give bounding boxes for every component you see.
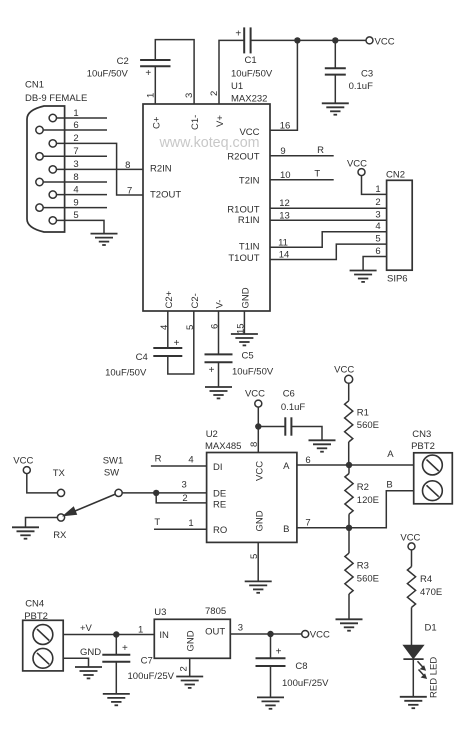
svg-text:+: + — [235, 29, 241, 40]
svg-text:SW: SW — [104, 468, 119, 479]
CN1 pin numbers 1-9 — [73, 108, 78, 221]
capacitor C5 — [205, 351, 274, 378]
capacitor C8 — [256, 646, 330, 689]
wire U1 pin12 to CN2 pin2 — [270, 207, 387, 209]
wire U1 pin1 riser — [154, 66, 156, 104]
svg-text:6: 6 — [375, 246, 380, 257]
svg-text:5: 5 — [73, 210, 78, 221]
svg-text:DE: DE — [213, 489, 226, 500]
svg-text:7: 7 — [127, 185, 132, 196]
svg-text:C5: C5 — [242, 351, 254, 362]
ground below C3 — [322, 103, 349, 114]
svg-text:VCC: VCC — [375, 36, 395, 47]
svg-text:DI: DI — [213, 462, 223, 473]
svg-text:1: 1 — [188, 518, 193, 529]
ground at U1 pin15 — [231, 334, 258, 345]
wire SW1 pole to U2 DE — [122, 492, 206, 494]
svg-text:T1IN: T1IN — [239, 241, 260, 252]
svg-text:C8: C8 — [295, 661, 307, 672]
CN2 pin numbers 1-6 — [375, 184, 380, 257]
wire VCC to R4 — [411, 550, 413, 567]
svg-text:A: A — [387, 449, 394, 460]
wire B row to CN3 — [349, 480, 414, 528]
U1 top pin numbers — [145, 91, 220, 98]
terminal VCC top — [366, 36, 395, 47]
switch SW1 pole — [103, 456, 124, 497]
svg-text:470E: 470E — [420, 587, 442, 598]
svg-text:560E: 560E — [357, 573, 379, 584]
node junction VCC-C6 — [255, 423, 261, 429]
capacitor C4 — [105, 338, 182, 379]
wire U1 pin10 T stub — [270, 169, 334, 180]
svg-text:MAX485: MAX485 — [205, 441, 241, 452]
svg-text:C1-: C1- — [190, 115, 201, 130]
CN4 screw terminal 2 — [33, 648, 53, 668]
svg-text:2: 2 — [179, 666, 190, 671]
switch SW1 blade with arrow — [64, 494, 116, 515]
U1 top pin labels — [151, 115, 226, 130]
U1 left pin labels — [150, 164, 181, 201]
wire CN1 pin8 stub — [43, 181, 107, 183]
svg-text:R: R — [155, 453, 162, 464]
svg-text:RE: RE — [213, 499, 226, 510]
wire U1 pin13 to CN2 pin3 — [270, 219, 387, 221]
connector CN4 PBT2 body — [23, 599, 64, 671]
svg-text:2: 2 — [73, 133, 78, 144]
svg-text:3: 3 — [73, 159, 78, 170]
svg-text:MAX232: MAX232 — [231, 94, 267, 105]
svg-text:C2-: C2- — [190, 293, 201, 308]
svg-text:4: 4 — [375, 221, 380, 232]
op-amp U1 MAX232 body — [143, 104, 270, 311]
svg-text:DB-9 FEMALE: DB-9 FEMALE — [25, 93, 87, 104]
svg-text:T1OUT: T1OUT — [228, 253, 259, 264]
wire junction to U2 RE — [156, 493, 206, 503]
node junction VCC-pin16 — [294, 37, 300, 43]
svg-text:8: 8 — [125, 160, 130, 171]
svg-text:C1: C1 — [245, 55, 257, 66]
svg-text:3: 3 — [181, 480, 186, 491]
wire U1 pin11 to CN2 pin4 — [270, 232, 387, 248]
wire T net to U2 RO — [154, 517, 207, 529]
svg-text:OUT: OUT — [205, 626, 225, 637]
svg-text:4: 4 — [73, 184, 78, 195]
capacitor C3 — [325, 68, 373, 92]
capacitor C6 — [281, 389, 305, 436]
terminal VCC output — [302, 630, 330, 641]
U1 right pin labels — [227, 127, 259, 264]
wire CN1 pin3 to R2IN — [57, 168, 144, 170]
svg-text:10uF/50V: 10uF/50V — [232, 367, 274, 378]
regulator U3 7805 body — [154, 606, 230, 658]
svg-text:+: + — [209, 365, 215, 376]
svg-text:+: + — [174, 338, 180, 349]
svg-text:VCC: VCC — [400, 532, 420, 543]
svg-text:C2: C2 — [117, 56, 129, 67]
svg-text:GND: GND — [254, 510, 265, 531]
ground at CN4 GND — [75, 667, 102, 678]
CN1 pin circles — [36, 114, 57, 224]
svg-text:IN: IN — [159, 630, 169, 641]
svg-text:PBT2: PBT2 — [24, 611, 48, 622]
wire junction to C8 — [270, 634, 272, 658]
ground at CN1 pin5 — [91, 234, 118, 245]
wire CN1 pin2 to T2OUT — [57, 143, 144, 195]
U1 designator label — [231, 81, 267, 105]
wire C6 to ground — [291, 427, 322, 441]
svg-text:R1: R1 — [357, 407, 369, 418]
wire C3 to ground — [334, 75, 336, 104]
svg-text:R2: R2 — [357, 482, 369, 493]
svg-text:7805: 7805 — [205, 606, 226, 617]
svg-text:VCC: VCC — [334, 364, 354, 375]
wire CN1 pin1 stub — [57, 117, 108, 119]
svg-text:GND: GND — [80, 647, 101, 658]
wire C7 to ground — [115, 662, 117, 694]
wire junction to C6 — [258, 426, 285, 428]
wire CN4 GND to ground — [63, 647, 101, 667]
svg-text:10uF/50V: 10uF/50V — [87, 68, 129, 79]
svg-text:T: T — [314, 169, 320, 180]
svg-text:U3: U3 — [154, 607, 166, 618]
svg-text:VCC: VCC — [13, 456, 33, 467]
svg-text:1: 1 — [375, 184, 380, 195]
U1 bottom pin labels — [164, 287, 252, 308]
ground at U3 GND — [176, 677, 203, 688]
svg-text:+: + — [276, 646, 282, 657]
wire VCC to U2 pin8 — [257, 407, 259, 452]
switch SW1 RX contact — [53, 514, 67, 541]
capacitor C2 — [87, 56, 171, 79]
svg-text:GND: GND — [240, 287, 251, 308]
wire VCC to CN2 pin1 — [362, 176, 387, 195]
wire C3 riser — [334, 40, 336, 68]
svg-text:VCC: VCC — [254, 461, 265, 481]
ground below D1 — [400, 697, 427, 708]
wire CN2 pin6 to ground — [363, 257, 387, 271]
svg-text:6: 6 — [73, 120, 78, 131]
svg-text:C7: C7 — [141, 656, 153, 667]
svg-text:100uF/25V: 100uF/25V — [282, 678, 329, 689]
svg-text:GND: GND — [186, 630, 197, 651]
svg-text:R2IN: R2IN — [150, 164, 172, 175]
svg-text:560E: 560E — [357, 420, 379, 431]
wire R1 to A row — [348, 442, 350, 465]
svg-text:U1: U1 — [231, 81, 243, 92]
wire U1 pin9 R stub — [270, 145, 334, 156]
svg-text:8: 8 — [73, 172, 78, 183]
svg-text:R4: R4 — [420, 574, 432, 585]
svg-text:T2OUT: T2OUT — [150, 189, 181, 200]
svg-text:CN3: CN3 — [412, 429, 431, 440]
wire CN4 +V to U3 IN — [63, 623, 154, 636]
svg-text:C6: C6 — [283, 389, 295, 400]
node junction DE-RE — [153, 490, 159, 496]
terminal VCC at CN2 — [347, 158, 367, 175]
svg-text:C4: C4 — [136, 352, 148, 363]
svg-text:R3: R3 — [357, 561, 369, 572]
diode D1 RED LED — [403, 645, 439, 698]
svg-text:D1: D1 — [425, 623, 437, 634]
svg-text:7: 7 — [73, 146, 78, 157]
svg-text:U2: U2 — [206, 429, 218, 440]
svg-text:V-: V- — [215, 300, 226, 309]
U1 bottom pin numbers — [159, 323, 247, 334]
svg-text:CN1: CN1 — [25, 80, 44, 91]
svg-text:4: 4 — [188, 454, 193, 465]
node junction B row — [346, 525, 352, 531]
wire U1 pin15 to ground — [243, 311, 245, 334]
ground below C7 — [103, 694, 130, 705]
svg-text:RED LED: RED LED — [429, 657, 440, 698]
svg-text:TX: TX — [53, 468, 66, 479]
node junction A row — [346, 462, 352, 468]
svg-text:5: 5 — [375, 234, 380, 245]
wire RX contact to ground — [26, 518, 58, 528]
ground below C8 — [257, 697, 284, 708]
wire R net to U2 DI — [151, 453, 207, 466]
ground below C5 — [205, 387, 232, 398]
capacitor C1 — [231, 27, 273, 79]
CN3 screw terminal 1 — [423, 455, 443, 475]
resistor R2 120E — [345, 465, 379, 528]
svg-text:120E: 120E — [357, 495, 379, 506]
wire U3 GND pin to ground — [179, 658, 190, 676]
svg-text:8: 8 — [249, 442, 260, 447]
svg-text:PBT2: PBT2 — [411, 441, 435, 452]
wire U2 pin5 to ground — [257, 542, 259, 581]
svg-text:SIP6: SIP6 — [387, 274, 408, 285]
svg-text:1: 1 — [73, 108, 78, 119]
terminal VCC at U2 pin8 — [245, 389, 265, 408]
wire U1 pin4 to C4 — [167, 311, 169, 348]
wire D1 to ground — [412, 659, 414, 697]
svg-text:VCC: VCC — [239, 127, 259, 138]
svg-text:VCC: VCC — [245, 389, 265, 400]
terminal VCC above R4 — [400, 532, 420, 550]
svg-text:CN4: CN4 — [25, 599, 44, 610]
svg-text:9: 9 — [73, 197, 78, 208]
U2 pin numbers — [181, 442, 310, 559]
wire CN1 pin7 stub — [43, 155, 107, 157]
wire CN1 pin6 stub — [43, 129, 107, 131]
wire VCC to TX contact — [27, 474, 58, 493]
ground below R3 — [336, 619, 363, 630]
svg-text:A: A — [283, 461, 290, 472]
svg-text:+: + — [122, 643, 128, 654]
svg-text:R2OUT: R2OUT — [227, 152, 259, 163]
terminal VCC above R1 — [334, 364, 354, 383]
wire VCC rail to U1 pin16 — [270, 40, 297, 130]
svg-text:RO: RO — [213, 525, 227, 536]
U2 pin labels — [213, 461, 290, 536]
svg-text:R1IN: R1IN — [238, 215, 260, 226]
svg-text:SW1: SW1 — [103, 456, 124, 467]
resistor R4 470E — [407, 567, 442, 608]
CN4 screw terminal 1 — [33, 625, 53, 645]
wire U1 pin14 to CN2 pin5 — [270, 244, 387, 259]
terminal VCC at SW1 — [13, 456, 33, 474]
svg-text:C+: C+ — [151, 116, 162, 129]
connector CN1 DB-9 FEMALE outline — [25, 80, 87, 233]
resistor R1 560E — [345, 401, 379, 442]
U1 side pin numbers — [125, 121, 290, 261]
svg-text:0.1uF: 0.1uF — [349, 81, 373, 92]
svg-text:RX: RX — [53, 530, 67, 541]
capacitor C7 — [102, 643, 174, 682]
svg-text:10uF/50V: 10uF/50V — [105, 368, 147, 379]
svg-text:B: B — [386, 480, 392, 491]
svg-text:100uF/25V: 100uF/25V — [128, 671, 175, 682]
wire U1 pin6 to C5 — [218, 311, 220, 354]
wire C2 top to U1 pin3 — [155, 40, 194, 104]
svg-text:CN2: CN2 — [386, 170, 405, 181]
svg-text:1: 1 — [138, 625, 143, 636]
svg-text:T2IN: T2IN — [239, 176, 260, 187]
wire CN1 pin9 stub — [43, 207, 107, 209]
svg-text:3: 3 — [375, 210, 380, 221]
svg-text:+V: +V — [80, 623, 93, 634]
svg-text:10uF/50V: 10uF/50V — [231, 68, 273, 79]
wire CN1 pin5 to ground — [57, 220, 105, 233]
svg-text:R1OUT: R1OUT — [227, 204, 259, 215]
wire C4 to U1 pin5 — [168, 311, 194, 374]
svg-text:C3: C3 — [361, 69, 373, 80]
wire CN1 pin4 stub — [57, 194, 108, 196]
wire VCC to R1 — [348, 383, 350, 401]
svg-text:VCC: VCC — [347, 158, 367, 169]
connector CN2 SIP6 body — [386, 170, 412, 285]
wire U2 B to junction — [297, 527, 349, 529]
node junction VCC C8 — [267, 631, 273, 637]
svg-text:T: T — [154, 517, 160, 528]
svg-text:VCC: VCC — [310, 630, 330, 641]
ground at U2 pin5 — [245, 581, 272, 592]
wire C5 to ground — [218, 362, 220, 387]
svg-text:0.1uF: 0.1uF — [281, 402, 305, 413]
switch SW1 TX contact — [53, 468, 66, 497]
svg-text:2: 2 — [375, 197, 380, 208]
wire C8 to ground — [270, 666, 272, 697]
connector CN3 PBT2 body — [411, 429, 452, 504]
ground at C6 — [309, 440, 336, 451]
svg-text:V+: V+ — [215, 115, 226, 127]
svg-text:+: + — [145, 68, 151, 79]
wire U2 A to CN3 — [297, 449, 414, 465]
op-amp U2 MAX485 body — [205, 429, 297, 542]
wire U3 OUT to VCC — [230, 622, 301, 634]
watermark www.koteq.com — [158, 135, 259, 151]
wire C1 to VCC rail — [251, 39, 366, 41]
resistor R3 560E — [345, 528, 379, 620]
CN3 screw terminal 2 — [423, 481, 443, 501]
svg-text:B: B — [283, 524, 289, 535]
wire U1 pin2 riser — [219, 40, 244, 104]
svg-text:7: 7 — [305, 517, 310, 528]
svg-text:R: R — [317, 145, 324, 156]
wire junction to C7 — [115, 635, 117, 655]
wire R4 to D1 — [412, 607, 437, 645]
svg-text:C2+: C2+ — [164, 290, 175, 308]
ground at SW1 RX — [12, 527, 39, 538]
ground at CN2 pin6 — [350, 271, 377, 282]
node junction VCC-C3 — [332, 37, 338, 43]
svg-text:3: 3 — [238, 622, 243, 633]
node junction +V C7 — [113, 631, 119, 637]
